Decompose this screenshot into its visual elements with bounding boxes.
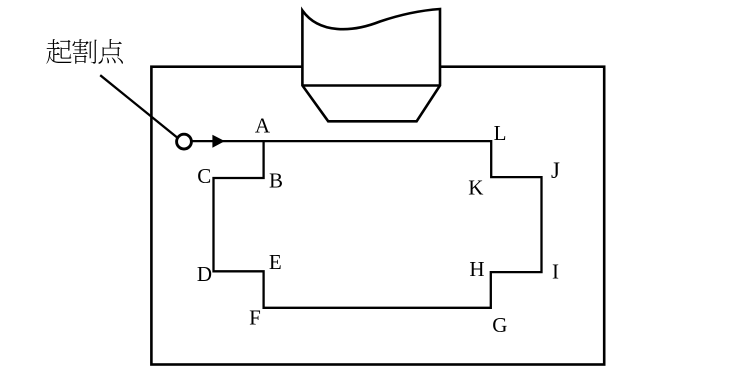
svg-text:I: I <box>552 260 559 284</box>
svg-text:K: K <box>468 176 483 200</box>
svg-text:A: A <box>255 114 271 138</box>
svg-text:J: J <box>551 158 560 183</box>
svg-text:L: L <box>494 121 507 145</box>
svg-text:B: B <box>269 169 283 193</box>
svg-text:F: F <box>249 306 261 330</box>
svg-text:E: E <box>269 250 282 274</box>
svg-text:C: C <box>197 164 211 188</box>
svg-text:G: G <box>492 313 507 337</box>
svg-text:H: H <box>469 257 484 281</box>
svg-text:D: D <box>197 262 212 286</box>
